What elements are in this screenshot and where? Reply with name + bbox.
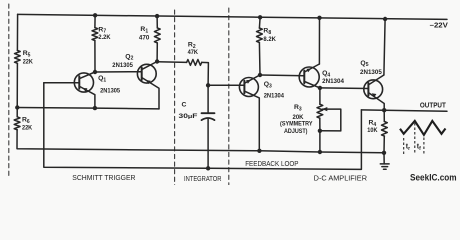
svg-text:2N1305: 2N1305 [112, 62, 133, 69]
svg-text:2.2K: 2.2K [98, 34, 110, 41]
svg-text:INTEGRATOR: INTEGRATOR [184, 174, 221, 183]
svg-text:–22V: –22V [430, 22, 449, 29]
svg-text:2N1305: 2N1305 [360, 69, 382, 76]
svg-text:SCHMITT TRIGGER: SCHMITT TRIGGER [72, 173, 135, 182]
svg-text:D-C AMPLIFIER: D-C AMPLIFIER [314, 174, 367, 183]
svg-text:22K: 22K [22, 125, 32, 132]
svg-text:30μF: 30μF [179, 113, 198, 120]
svg-text:2N1305: 2N1305 [100, 88, 120, 95]
svg-text:C: C [182, 102, 187, 109]
svg-text:10K: 10K [367, 127, 377, 134]
svg-text:OUTPUT: OUTPUT [420, 103, 447, 110]
svg-text:2N1304: 2N1304 [264, 93, 284, 100]
svg-text:8.2K: 8.2K [263, 36, 276, 43]
svg-text:470: 470 [139, 35, 150, 42]
svg-text:47K: 47K [188, 49, 198, 56]
svg-text:ADJUST): ADJUST) [284, 128, 308, 135]
svg-text:(SYMMETRY: (SYMMETRY [280, 121, 313, 128]
svg-text:22K: 22K [23, 58, 33, 65]
svg-text:SeekIC.com: SeekIC.com [410, 173, 457, 184]
svg-text:2N1304: 2N1304 [322, 78, 344, 85]
svg-text:FEEDBACK LOOP: FEEDBACK LOOP [245, 159, 298, 168]
